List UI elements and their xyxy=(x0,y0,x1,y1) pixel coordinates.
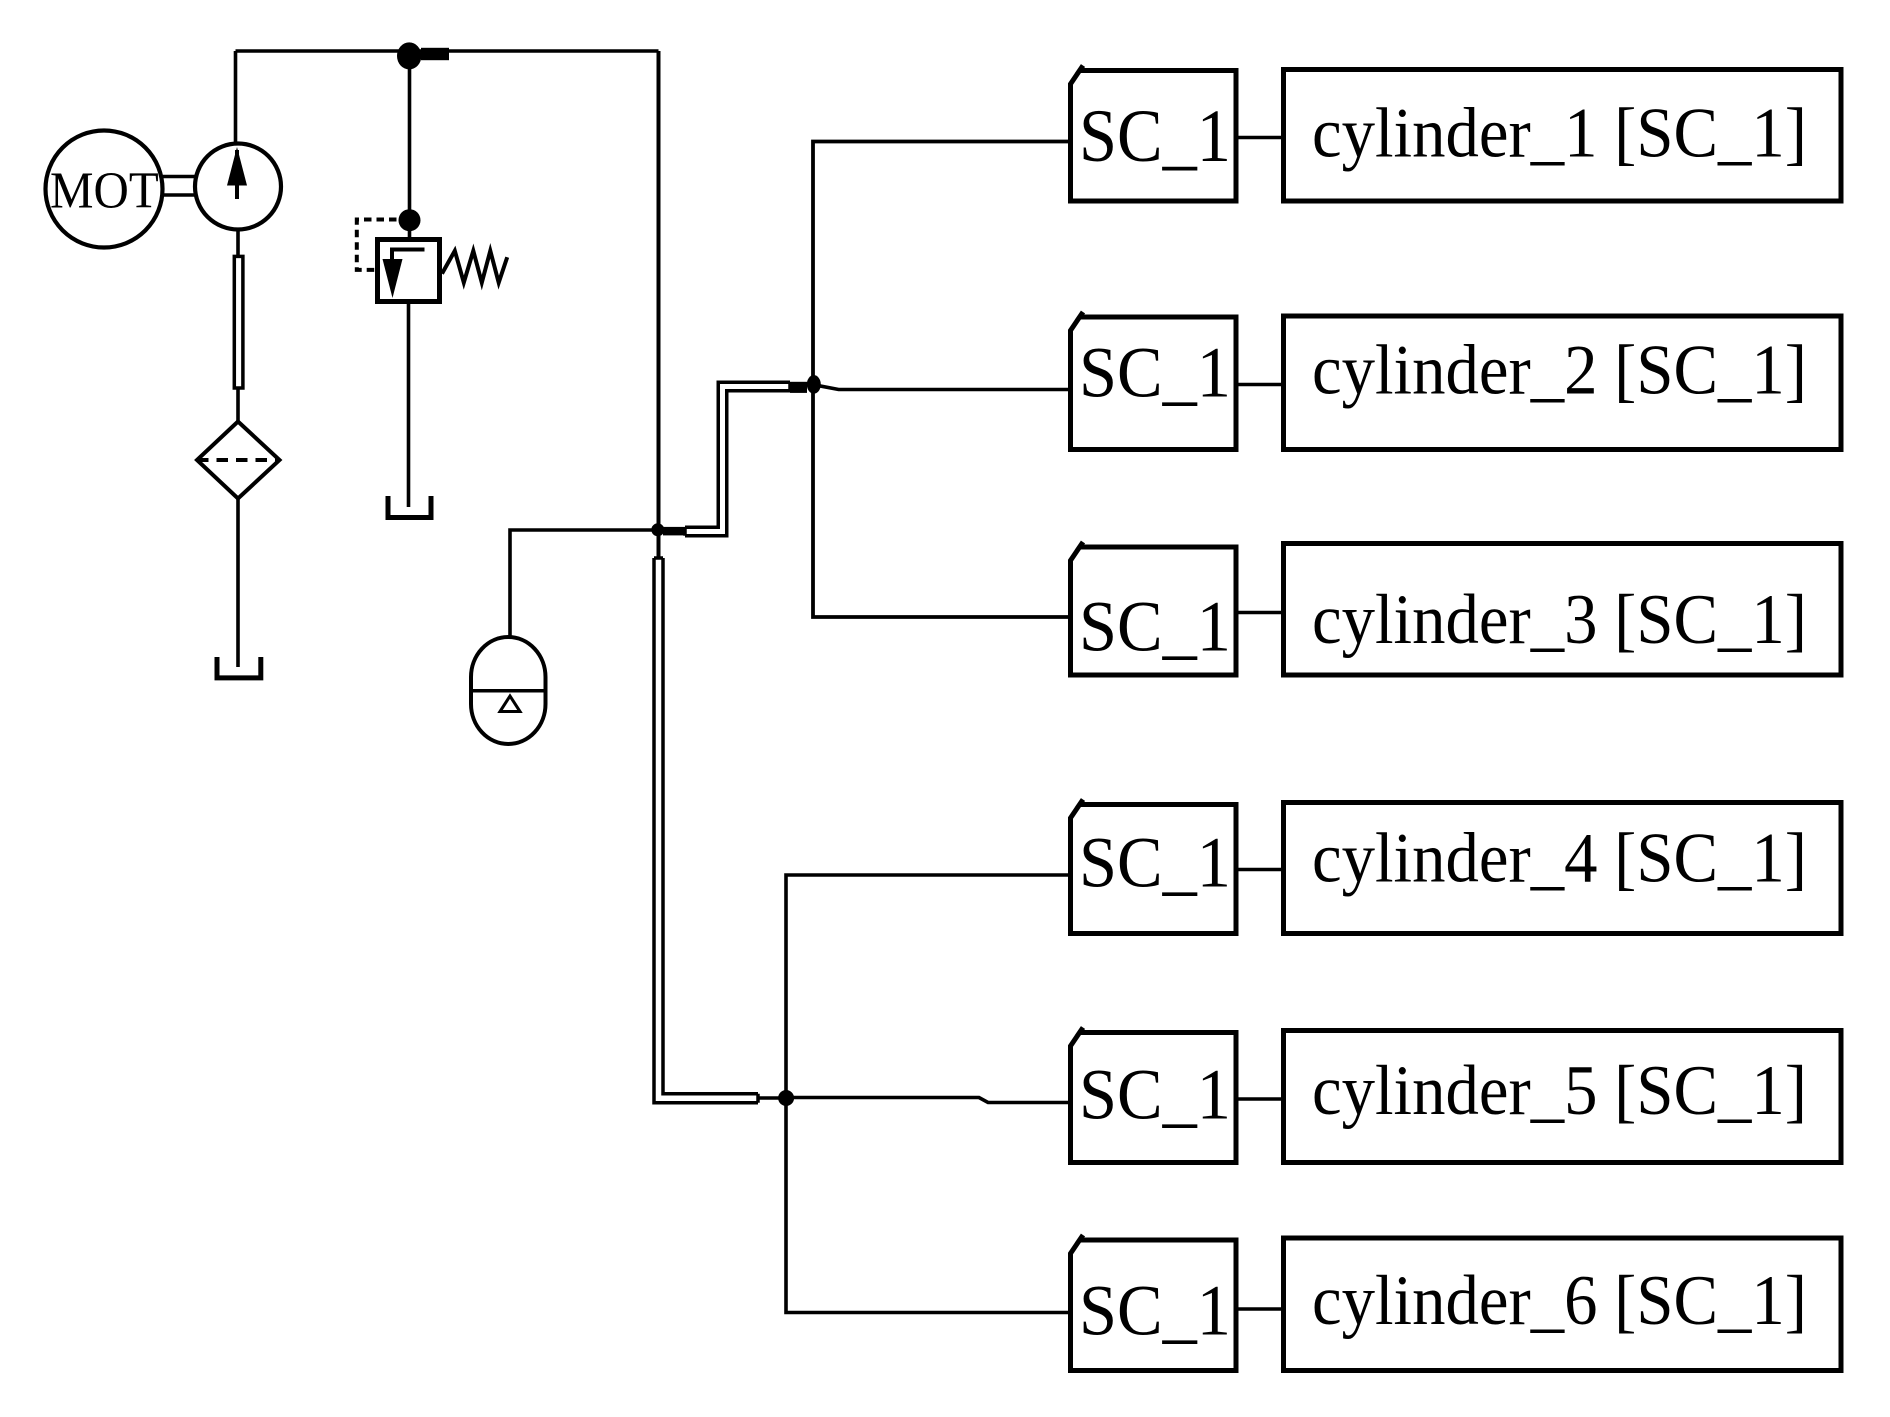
wire link row 1 xyxy=(1236,136,1284,140)
block cylinder_6 xyxy=(1284,1238,1842,1371)
block cylinder_5 xyxy=(1284,1031,1842,1163)
wire branch to SC_1 and SC_3 xyxy=(813,142,1068,618)
svg-text:cylinder_3 [SC_1]: cylinder_3 [SC_1] xyxy=(1312,581,1807,659)
supercomponent SC_1 (row 5) xyxy=(1071,1028,1237,1163)
junction dot J4 xyxy=(807,375,821,394)
connector plug M3 xyxy=(790,382,807,393)
accumulator A1 xyxy=(471,637,546,744)
filter F1 (diamond with dashed line) xyxy=(197,422,280,499)
svg-text:SC_1: SC_1 xyxy=(1079,1054,1231,1134)
svg-text:SC_1: SC_1 xyxy=(1079,333,1231,413)
svg-text:SC_1: SC_1 xyxy=(1079,823,1231,903)
pipe L-shape from J3 up to J4 (double line) xyxy=(685,382,790,536)
wire to SC_2 xyxy=(814,385,1068,390)
pilot line (dashed) xyxy=(357,220,409,270)
pump P1 xyxy=(195,144,281,230)
wire relief valve to tank xyxy=(407,304,411,507)
wire accumulator branch xyxy=(510,530,652,637)
pipe element below pump xyxy=(234,256,243,388)
wire top supply bus xyxy=(236,49,659,53)
wire pipe to filter xyxy=(236,388,240,422)
pipe L-shape down to distribution (double line) xyxy=(654,558,758,1103)
connector plug M2 xyxy=(663,527,685,536)
wire right bus drop xyxy=(657,51,661,557)
supercomponent SC_1 (row 1) xyxy=(1071,66,1237,202)
wire link row 2 xyxy=(1236,383,1284,387)
block cylinder_3 xyxy=(1284,544,1842,676)
wire to SC_5 xyxy=(793,1098,1068,1103)
block cylinder_4 xyxy=(1284,803,1842,934)
junction dot J1 on top bus xyxy=(397,42,421,69)
motor MOT xyxy=(46,131,163,248)
block cylinder_1 xyxy=(1284,70,1842,202)
wire link row 5 xyxy=(1236,1097,1284,1101)
junction dot J3 xyxy=(651,523,664,536)
shaft between motor and pump xyxy=(162,177,196,196)
spring of relief valve xyxy=(442,251,507,283)
junction dot J5 xyxy=(778,1090,794,1106)
tank T2 xyxy=(388,496,431,518)
block cylinder_2 xyxy=(1284,316,1842,450)
connector plug M1 xyxy=(421,48,449,60)
wire filter to tank xyxy=(236,499,240,668)
svg-text:SC_1: SC_1 xyxy=(1079,587,1231,667)
wire pipe end to J5 xyxy=(758,1096,779,1100)
svg-text:SC_1: SC_1 xyxy=(1079,95,1231,178)
supercomponent SC_1 (row 6) xyxy=(1071,1235,1237,1371)
wire link row 4 xyxy=(1236,868,1284,872)
wire link row 6 xyxy=(1236,1307,1284,1311)
svg-text:cylinder_4 [SC_1]: cylinder_4 [SC_1] xyxy=(1312,820,1807,898)
tank T1 xyxy=(217,657,261,678)
wire pump riser xyxy=(234,51,238,145)
svg-text:cylinder_6 [SC_1]: cylinder_6 [SC_1] xyxy=(1312,1262,1807,1340)
wire to SC_4 xyxy=(786,875,1068,1098)
svg-text:cylinder_2 [SC_1]: cylinder_2 [SC_1] xyxy=(1312,332,1807,410)
junction dot J2 above relief valve xyxy=(399,209,421,231)
svg-text:cylinder_5 [SC_1]: cylinder_5 [SC_1] xyxy=(1312,1052,1807,1130)
supercomponent SC_1 (row 2) xyxy=(1071,312,1237,450)
wire pump to pipe xyxy=(236,230,240,258)
svg-text:SC_1: SC_1 xyxy=(1079,1271,1231,1351)
wire to SC_6 xyxy=(786,1098,1068,1313)
relief valve V1 xyxy=(378,240,440,302)
wire relief valve riser xyxy=(408,51,412,237)
svg-text:MOT: MOT xyxy=(50,162,159,219)
wire link row 3 xyxy=(1236,611,1284,615)
svg-text:cylinder_1 [SC_1]: cylinder_1 [SC_1] xyxy=(1312,95,1807,173)
supercomponent SC_1 (row 3) xyxy=(1071,542,1237,675)
supercomponent SC_1 (row 4) xyxy=(1071,800,1237,934)
